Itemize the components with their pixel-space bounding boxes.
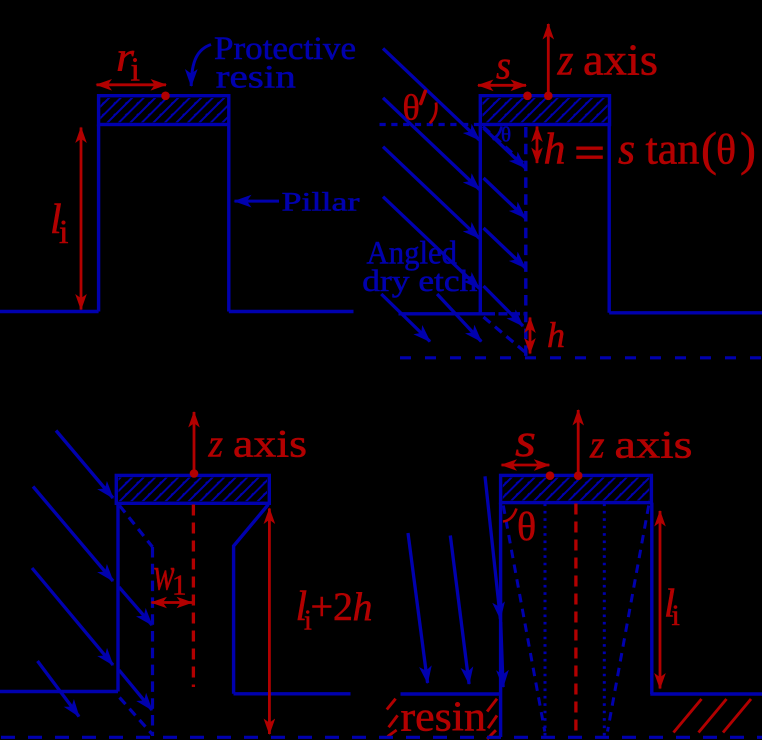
svg-text:axis: axis [233, 423, 307, 466]
svg-text:z: z [589, 424, 604, 467]
svg-text:s: s [496, 43, 511, 88]
svg-text:+2: +2 [311, 584, 354, 629]
svg-text:(: ( [701, 123, 717, 176]
svg-text:tan: tan [646, 125, 700, 174]
svg-text:i: i [59, 214, 68, 251]
svg-text:): ) [740, 123, 756, 176]
svg-text:i: i [672, 599, 680, 632]
svg-text:θ: θ [403, 88, 420, 128]
svg-text:s: s [515, 414, 536, 467]
svg-text:θ: θ [517, 504, 536, 549]
svg-text:dry etch: dry etch [362, 264, 477, 298]
svg-text:resin: resin [216, 60, 296, 96]
svg-text:1: 1 [172, 570, 187, 602]
svg-text:h: h [353, 584, 373, 629]
svg-text:h: h [547, 315, 565, 355]
svg-text:s: s [618, 125, 635, 174]
svg-text:i: i [131, 52, 140, 89]
svg-text:axis: axis [583, 36, 658, 85]
svg-text:z: z [557, 36, 574, 85]
svg-text:h: h [544, 125, 566, 174]
svg-text:θ: θ [716, 128, 736, 174]
svg-text:Pillar: Pillar [282, 187, 360, 217]
svg-text:axis: axis [615, 424, 693, 467]
svg-text:θ: θ [501, 123, 511, 147]
svg-text:resin: resin [401, 695, 487, 740]
svg-text:z: z [208, 423, 223, 466]
